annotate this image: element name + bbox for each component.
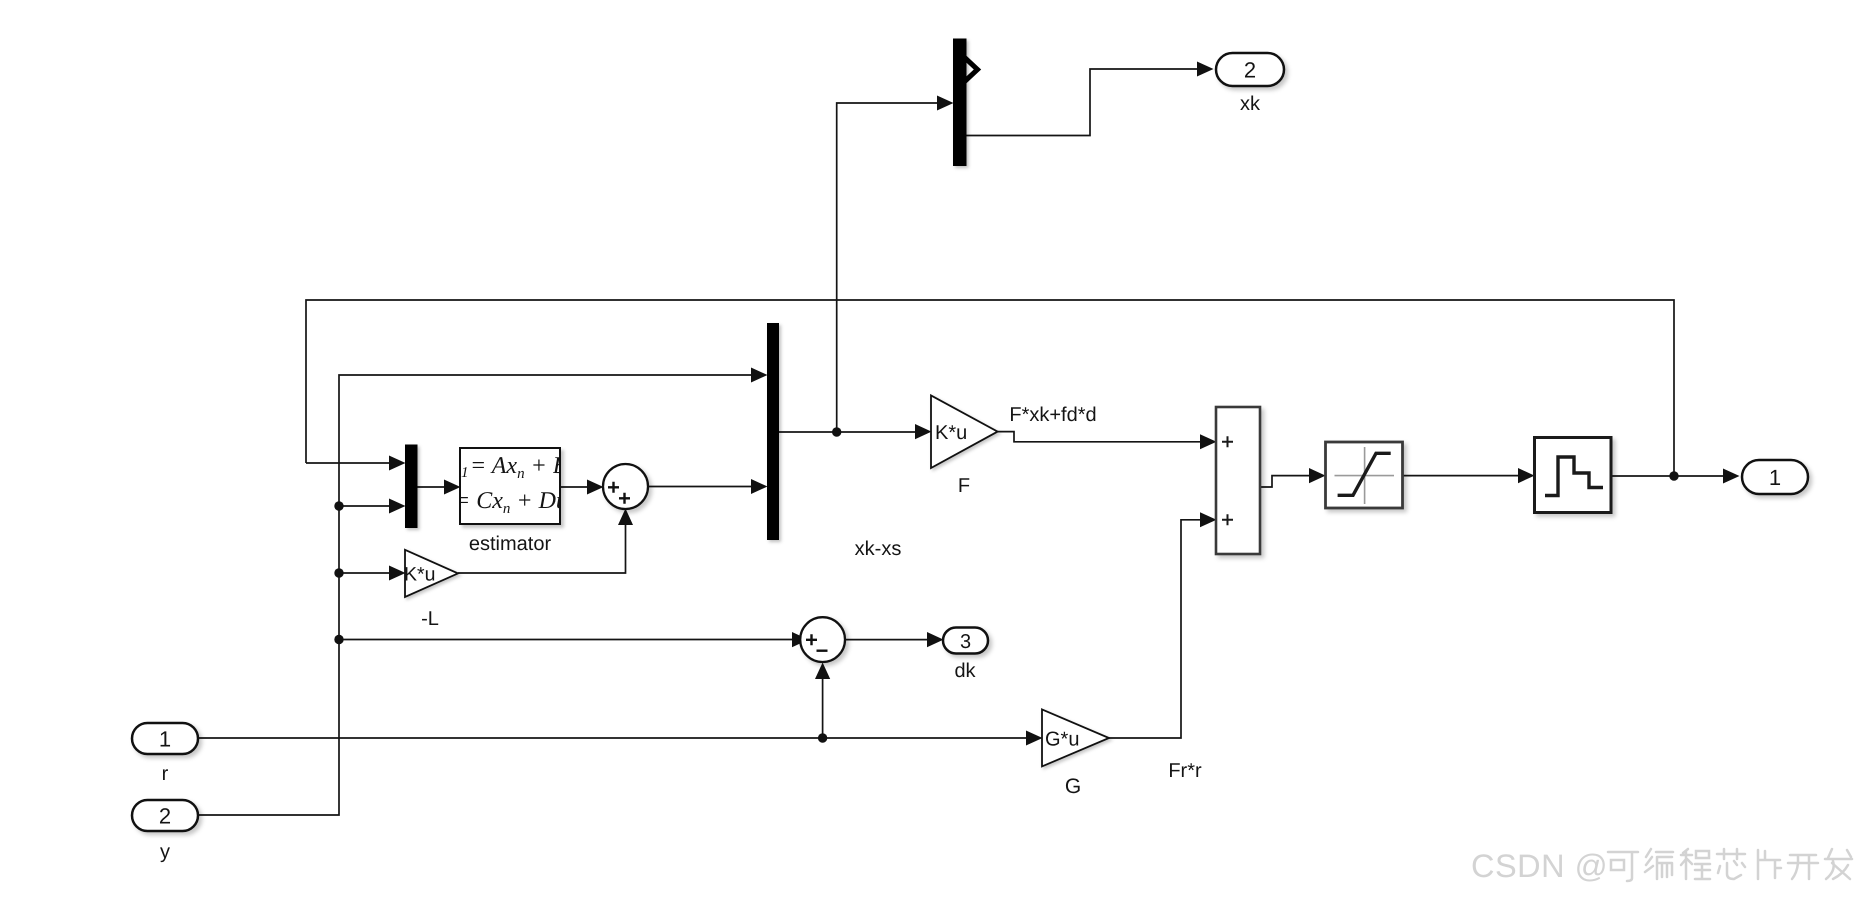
svg-text:xk-xs: xk-xs	[855, 538, 902, 560]
svg-text:3: 3	[960, 631, 971, 653]
svg-text:G*u: G*u	[1045, 729, 1079, 751]
svg-text:K*u: K*u	[404, 564, 435, 586]
svg-text:-L: -L	[421, 608, 439, 630]
svg-text:Fr*r: Fr*r	[1168, 760, 1202, 782]
svg-text:F: F	[958, 475, 970, 497]
svg-text:K*u: K*u	[935, 422, 967, 444]
svg-text:F*xk+fd*d: F*xk+fd*d	[1009, 404, 1096, 426]
svg-text:2: 2	[1244, 58, 1256, 83]
svg-text:1: 1	[461, 465, 469, 481]
svg-text:xk: xk	[1240, 93, 1261, 115]
svg-text:1: 1	[159, 727, 171, 752]
svg-text:= Cxn + Du: = Cxn + Du	[454, 488, 568, 517]
svg-text:r: r	[162, 763, 169, 785]
svg-text:G: G	[1065, 775, 1081, 798]
svg-text:1: 1	[1769, 465, 1781, 490]
svg-text:2: 2	[159, 804, 171, 829]
svg-text:y: y	[160, 841, 170, 863]
svg-text:CSDN @: CSDN @	[1471, 848, 1608, 884]
svg-text:dk: dk	[954, 660, 976, 682]
svg-text:estimator: estimator	[469, 533, 552, 555]
